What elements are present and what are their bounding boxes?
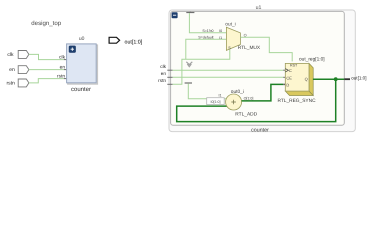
input port pentagon rstn xyxy=(18,79,29,87)
block u0 shadow xyxy=(68,45,98,84)
svg-text:I0[1:0]: I0[1:0] xyxy=(211,100,221,104)
wire const to adder I1 xyxy=(188,83,227,98)
svg-text:RST: RST xyxy=(290,63,298,67)
svg-text:out_i: out_i xyxy=(225,21,235,27)
svg-text:O[1:0]: O[1:0] xyxy=(244,96,254,100)
input port pentagon en xyxy=(18,66,29,74)
pin stub rstn into u0 xyxy=(64,78,68,80)
svg-text:CE: CE xyxy=(286,75,292,80)
pin stub en into u0 xyxy=(64,69,68,71)
svg-text:S=1'b0: S=1'b0 xyxy=(202,29,213,33)
outer cell frame u1 xyxy=(169,10,355,132)
wire rstn to mux select (up and right) xyxy=(173,49,230,85)
mux out_i RTL_MUX trapezoid xyxy=(226,27,240,50)
collapse icon (-) of u1 xyxy=(172,12,178,18)
svg-text:clk: clk xyxy=(7,52,14,58)
svg-text:u0: u0 xyxy=(79,36,85,42)
constant tie bar (adder increment 1) xyxy=(185,82,192,84)
adder out0_i RTL_ADD circle xyxy=(226,94,242,110)
block u0 (collapsed counter instance) xyxy=(67,44,97,83)
svg-text:I1: I1 xyxy=(219,36,222,40)
svg-text:clk: clk xyxy=(59,54,65,60)
svg-text:rstn: rstn xyxy=(158,78,166,83)
expand icon (+) of u0 xyxy=(69,46,76,53)
wire mux O to register RST (right, down, right, down) xyxy=(240,37,292,61)
feedback bus Q to adder I0 (thick) xyxy=(177,79,336,121)
clock chevron of register C pin xyxy=(285,69,288,72)
register bottom 3D face xyxy=(285,91,313,95)
pin stub clk into u0 xyxy=(64,59,68,61)
wire rstn (pentagon to u0, jog up) xyxy=(29,79,64,83)
pin stub into register C xyxy=(283,69,285,71)
svg-text:clk: clk xyxy=(160,64,166,69)
register right 3D face xyxy=(309,63,313,95)
svg-text:counter: counter xyxy=(71,87,91,93)
inner schematic canvas of u1 xyxy=(171,11,345,125)
wire en (pentagon to u0, straight) xyxy=(29,69,64,71)
pin stub into register D xyxy=(283,83,285,85)
svg-text:counter: counter xyxy=(251,128,269,134)
wire register Q to out port (thick) xyxy=(313,78,344,80)
svg-text:S=default: S=default xyxy=(198,36,213,40)
svg-text:Q: Q xyxy=(305,76,308,81)
svg-text:out[1:0]: out[1:0] xyxy=(351,75,366,80)
constant tie bar (mux I0 reset value) xyxy=(189,11,191,12)
svg-text:en: en xyxy=(9,67,15,73)
input port pentagon clk xyxy=(18,51,29,59)
svg-text:en: en xyxy=(161,71,167,76)
wire adder O to register D (thick) xyxy=(242,84,284,101)
svg-text:en: en xyxy=(60,65,66,70)
net continuation arrow on rstn net xyxy=(186,62,192,67)
svg-text:RTL_MUX: RTL_MUX xyxy=(238,45,261,51)
svg-text:I0: I0 xyxy=(219,29,222,33)
output port pentagon out[1:0] xyxy=(109,37,120,43)
port stub rstn through u1 border xyxy=(167,83,172,85)
port stub out[1:0] through u1 border xyxy=(344,78,350,80)
wire mux I1 (down to rstn net row) xyxy=(186,39,227,59)
pin stub into register CE xyxy=(283,76,285,78)
plus sign of adder xyxy=(231,100,236,105)
port stub clk through u1 border xyxy=(167,69,172,71)
junction dot on Q net xyxy=(334,77,338,81)
svg-text:rstn: rstn xyxy=(6,81,15,87)
svg-text:rstn: rstn xyxy=(57,73,65,79)
svg-text:RTL_REG_SYNC: RTL_REG_SYNC xyxy=(278,98,317,104)
wire en to register CE xyxy=(173,76,284,78)
svg-text:RTL_ADD: RTL_ADD xyxy=(235,111,257,117)
net label box I0[1:0] on adder input xyxy=(207,98,225,105)
svg-text:I1: I1 xyxy=(219,94,222,98)
svg-text:design_top: design_top xyxy=(31,20,61,27)
wire const to mux I0 xyxy=(189,13,226,33)
svg-text:C: C xyxy=(289,68,292,73)
svg-text:D: D xyxy=(286,83,289,88)
register front face RTL_REG_SYNC xyxy=(285,63,309,91)
svg-text:out_reg[1:0]: out_reg[1:0] xyxy=(299,57,325,63)
svg-text:out[1:0]: out[1:0] xyxy=(125,39,143,45)
wire clk to register C xyxy=(173,69,284,71)
port stub en through u1 border xyxy=(167,76,172,78)
wire clk (pentagon to u0, jog down) xyxy=(29,54,64,59)
